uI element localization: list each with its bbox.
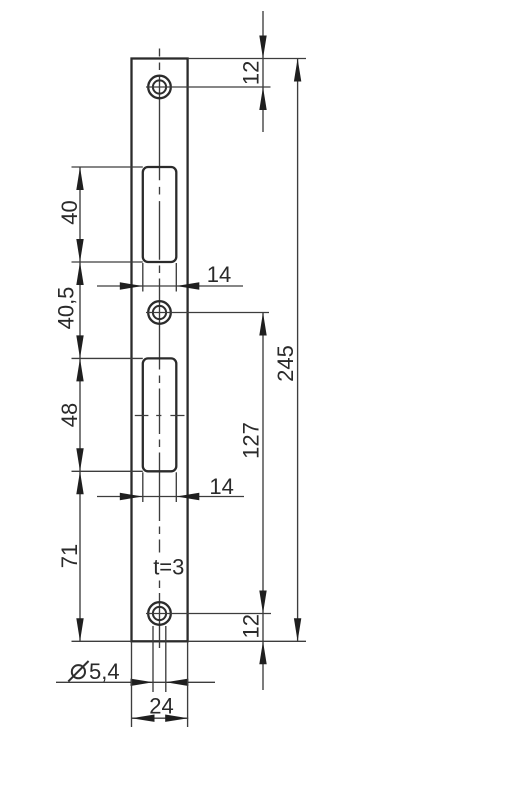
arrow 14a left	[120, 282, 143, 289]
svg-text:12: 12	[239, 61, 264, 85]
arrow bowtie 262	[76, 239, 83, 285]
extension line cutout2 bottom	[72, 470, 143, 472]
label 12 top	[239, 61, 264, 85]
vertical centerline	[159, 49, 161, 649]
screw hole bottom outer	[148, 602, 171, 625]
arrow 12 bottom	[259, 641, 266, 664]
arrow 40 top	[76, 167, 83, 190]
arrow 127 bottom	[259, 591, 266, 614]
cutout2 width ext lines	[143, 472, 177, 502]
label 40,5	[54, 287, 79, 330]
arrow bowtie 358	[76, 335, 83, 381]
latch cutout C2	[143, 358, 177, 471]
latch cutout C1	[143, 167, 177, 262]
screw hole bottom inner	[153, 607, 166, 620]
dim line 12 top	[262, 11, 264, 132]
label 14 first	[207, 262, 231, 287]
svg-text:245: 245	[273, 345, 298, 382]
extension line cutout1 bottom	[72, 261, 143, 263]
cutout2 width dim line 14	[97, 496, 244, 498]
svg-text:14: 14	[209, 474, 233, 499]
label 71	[57, 544, 82, 568]
dim line hole diameter	[56, 681, 215, 683]
extension line cutout1 top	[72, 166, 143, 168]
arrow 12 top lower	[259, 87, 266, 110]
svg-text:12: 12	[239, 614, 264, 638]
screw hole middle center line	[146, 312, 269, 314]
plate width ext lines	[132, 642, 188, 727]
arrow 24 right	[165, 715, 188, 722]
label t=3	[153, 555, 184, 580]
svg-text:127: 127	[238, 422, 263, 459]
label 40	[57, 200, 82, 224]
extension line cutout2 top	[72, 357, 143, 359]
label 48	[57, 403, 82, 427]
dim line 245	[297, 59, 299, 642]
arrow bowtie 471	[76, 448, 83, 494]
arrow dia left	[131, 679, 154, 686]
label 12 bottom	[239, 614, 264, 638]
svg-text:t=3: t=3	[153, 555, 184, 580]
cutout1 width ext lines	[143, 263, 177, 292]
arrow 245 top	[294, 59, 301, 82]
arrow dia right	[166, 679, 189, 686]
extension line plate bottom left	[72, 640, 132, 642]
screw hole bottom center line	[146, 613, 271, 615]
arrow 71 bottom	[76, 618, 83, 641]
label 24	[149, 694, 173, 719]
label 245	[273, 345, 298, 382]
screw hole middle inner	[153, 306, 166, 319]
label 14 second	[209, 474, 233, 499]
dim line 24	[132, 717, 189, 719]
plate outline	[132, 59, 188, 642]
arrow 14a right	[176, 282, 199, 289]
dim line 12 bottom segment	[262, 614, 264, 691]
left dimension line	[79, 167, 81, 641]
arrow 24 left	[132, 715, 155, 722]
cutout C2 horizontal centerline	[135, 415, 185, 417]
svg-text:40,5: 40,5	[54, 287, 79, 330]
arrow 12 top upper	[259, 36, 266, 59]
svg-text:24: 24	[149, 694, 173, 719]
hole diameter ext lines	[153, 626, 166, 692]
svg-text:48: 48	[57, 403, 82, 427]
svg-text:14: 14	[207, 262, 231, 287]
cutout1 width dim line 14	[97, 285, 243, 287]
svg-text:71: 71	[57, 544, 82, 568]
extension line plate top right	[188, 58, 306, 60]
svg-text:40: 40	[57, 200, 82, 224]
screw hole top outer	[148, 76, 171, 99]
arrow 14b left	[120, 493, 143, 500]
svg-text:5,4: 5,4	[89, 659, 120, 684]
arrow 14b right	[176, 493, 199, 500]
screw hole top inner	[153, 80, 166, 93]
label hole diameter	[68, 659, 119, 684]
screw hole top center line	[146, 86, 271, 88]
arrow 127 top	[259, 313, 266, 336]
screw hole middle outer	[148, 301, 171, 324]
dim line 127	[262, 313, 264, 614]
extension line plate bottom right	[188, 640, 306, 642]
label 127	[238, 422, 263, 459]
arrow 245 bottom	[294, 618, 301, 641]
